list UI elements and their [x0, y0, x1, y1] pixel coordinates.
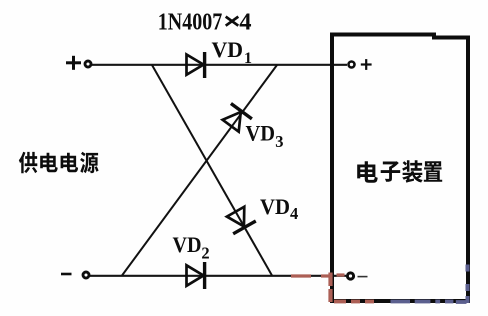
wire bottom (-) rail	[90, 275, 346, 277]
svg-text:VD: VD	[246, 121, 276, 146]
wire diagonal B (bottom-left to top-right, carries VD3)	[122, 65, 277, 276]
svg-text:1N4007: 1N4007	[158, 9, 223, 36]
svg-text:2: 2	[201, 243, 209, 262]
label 供电电源 char 1	[19, 152, 37, 173]
svg-text:4: 4	[239, 9, 251, 36]
minus sign right output	[358, 276, 368, 278]
svg-text:VD: VD	[173, 232, 202, 257]
svg-text:3: 3	[275, 132, 283, 151]
label VD2	[173, 232, 210, 262]
red dashed trace on bottom wire	[291, 275, 345, 276]
minus sign left input	[61, 273, 72, 276]
terminal node right +	[349, 62, 355, 68]
label 电子装置 char 1	[357, 161, 378, 182]
value label 1N4007x4	[158, 9, 252, 36]
label 供电电源 char 3	[61, 153, 79, 172]
svg-text:VD: VD	[260, 194, 290, 219]
diode VD4	[224, 205, 256, 234]
label 供电电源 char 4	[80, 152, 99, 173]
terminal node left -	[83, 272, 89, 278]
diode VD3	[220, 103, 252, 133]
plus sign left input	[66, 56, 81, 70]
label VD4	[260, 194, 298, 223]
svg-text:1: 1	[244, 50, 252, 67]
svg-text:VD: VD	[212, 37, 244, 62]
label 电子装置 char 4	[424, 161, 442, 182]
label VD1	[212, 37, 253, 67]
red dashed trace vertical on box left edge	[328, 273, 332, 303]
wire diagonal A (top-left to bottom-right, carries VD4)	[152, 65, 272, 276]
label VD3	[246, 121, 284, 152]
diode VD2	[187, 262, 205, 289]
blue dashed trace on box right edge	[466, 265, 470, 304]
label 电子装置 char 2	[381, 161, 401, 181]
box 电子装置 (electronic device) outline	[332, 35, 468, 302]
wire top (+) rail	[92, 64, 347, 66]
terminal node left +	[85, 61, 91, 67]
terminal node right -	[347, 273, 353, 279]
svg-text:4: 4	[290, 204, 298, 223]
red dashed trace on box bottom edge	[334, 300, 374, 304]
plus sign right output	[361, 59, 372, 70]
blue dashed trace on box bottom edge	[391, 300, 467, 304]
label 电子装置 char 3	[402, 160, 422, 183]
diode VD1	[187, 52, 205, 78]
label 供电电源 char 2	[40, 153, 58, 172]
